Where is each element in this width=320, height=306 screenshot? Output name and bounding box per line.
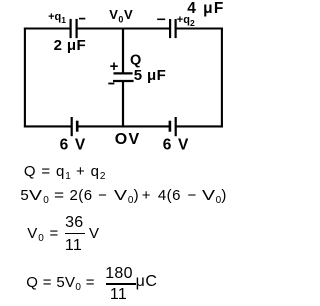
wire top-middle segment	[77, 27, 171, 29]
equation line 3: V0 = 36/11 V	[27, 226, 59, 241]
label minus of C3	[108, 83, 114, 85]
wire bottom-middle segment	[78, 125, 169, 127]
wire left edge	[24, 28, 26, 128]
svg-text:4 μF: 4 μF	[187, 0, 224, 17]
label minus of C2	[157, 18, 165, 20]
capacitor C1 2uF right plate	[75, 19, 77, 38]
svg-text:+q1: +q1	[48, 11, 66, 25]
svg-text:V0V: V0V	[109, 7, 133, 24]
wire bottom-left segment	[24, 125, 71, 127]
battery B1 long plate	[71, 117, 73, 136]
label minus of C1	[79, 18, 85, 20]
wire middle branch upper	[122, 29, 124, 75]
capacitor C3 5uF top plate	[114, 72, 133, 74]
capacitor C1 2uF left plate	[69, 19, 71, 38]
wire top-left segment	[24, 27, 71, 29]
wire top-right segment	[176, 27, 223, 29]
svg-text:6 V: 6 V	[163, 137, 189, 154]
battery B2 short plate	[169, 121, 172, 132]
equation line 4: Q = 5V0 = 180/11 uC	[26, 275, 95, 290]
svg-text:2 μF: 2 μF	[54, 37, 86, 54]
capacitor C2 4uF left plate	[169, 19, 171, 38]
capacitor C2 4uF right plate	[175, 19, 177, 38]
battery B1 short plate	[76, 121, 79, 132]
svg-text:5 μF: 5 μF	[134, 67, 166, 84]
svg-text:+: +	[110, 58, 119, 75]
wire middle branch lower	[122, 81, 124, 126]
equation line 1: Q = q1 + q2	[24, 164, 106, 179]
capacitor C3 5uF bottom plate	[113, 80, 134, 82]
svg-text:6 V: 6 V	[60, 137, 86, 154]
wire bottom-right segment	[177, 125, 223, 127]
wire right edge	[221, 28, 223, 128]
battery B2 long plate	[175, 117, 177, 136]
equation line 2: 5V0 = 2(6 - V0) + 4(6 - V0)	[20, 188, 49, 203]
svg-text:OV: OV	[115, 131, 141, 148]
